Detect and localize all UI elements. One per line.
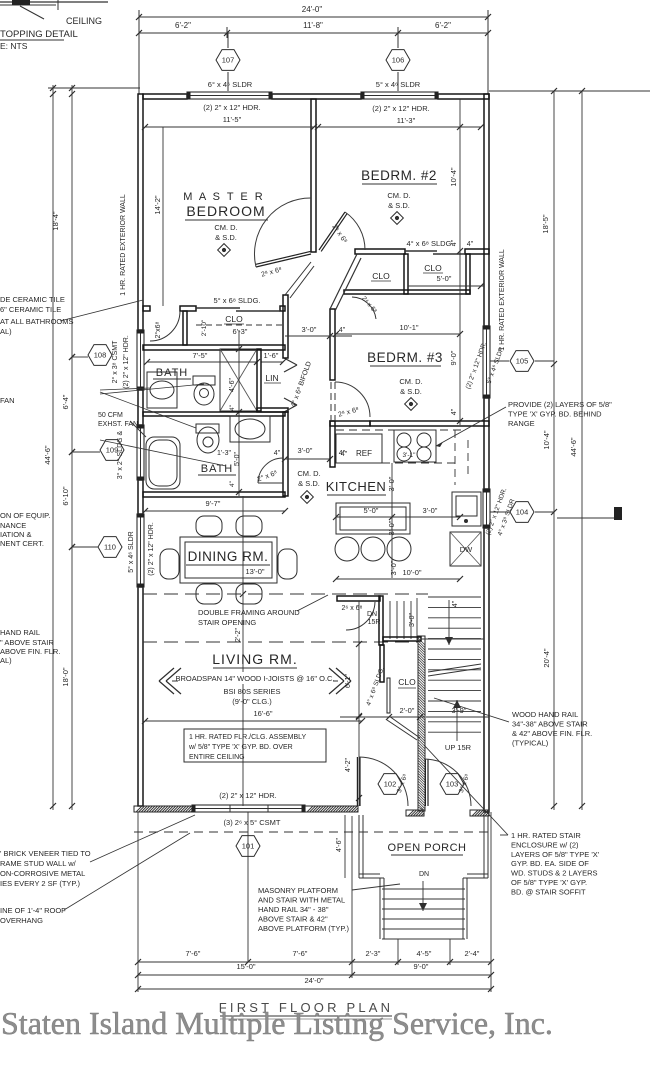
door 103 leaf bbox=[427, 759, 429, 806]
bath2 bottom wall / dining top bbox=[143, 492, 285, 497]
svg-text:6'-2": 6'-2" bbox=[175, 21, 191, 30]
bath1 toilet bbox=[193, 376, 215, 385]
svg-text:3'-1": 3'-1" bbox=[403, 452, 417, 459]
svg-text:& S.D.: & S.D. bbox=[215, 233, 237, 242]
vestibule east wall bbox=[379, 596, 383, 645]
range burners bbox=[397, 433, 411, 447]
svg-text:4'-5": 4'-5" bbox=[417, 949, 432, 958]
svg-text:AL): AL) bbox=[0, 327, 12, 336]
kitchen island bbox=[336, 503, 410, 534]
svg-text:6'-1": 6'-1" bbox=[345, 674, 352, 688]
svg-text:1'-6": 1'-6" bbox=[264, 351, 279, 360]
svg-text:BEDRM. #3: BEDRM. #3 bbox=[367, 350, 443, 365]
stair up arrow bbox=[456, 700, 458, 741]
svg-text:10'-1": 10'-1" bbox=[399, 323, 418, 332]
svg-text:CLO: CLO bbox=[424, 263, 442, 273]
hexagon 105 bedrm3 window bbox=[510, 351, 534, 372]
bottom exterior wall with hatch bbox=[134, 806, 192, 812]
svg-text:RAME STUD WALL w/: RAME STUD WALL w/ bbox=[0, 859, 77, 868]
svg-text:2° x 6⁸: 2° x 6⁸ bbox=[256, 469, 278, 484]
svg-text:2⁸ x 6⁸: 2⁸ x 6⁸ bbox=[261, 266, 283, 278]
stair treads bbox=[428, 596, 481, 598]
svg-text:103: 103 bbox=[446, 780, 459, 789]
bath2 tub bbox=[146, 437, 180, 489]
svg-text:20'-4": 20'-4" bbox=[542, 648, 551, 667]
svg-text:13'-0": 13'-0" bbox=[245, 567, 264, 576]
detail leader to CEILING bbox=[20, 6, 44, 19]
svg-text:" ABOVE STAIR: " ABOVE STAIR bbox=[0, 638, 54, 647]
stair rail double line bbox=[428, 664, 481, 672]
svg-text:10'-0": 10'-0" bbox=[402, 568, 421, 577]
svg-text:TOPPING DETAIL: TOPPING DETAIL bbox=[0, 29, 78, 40]
bath2 toilet bbox=[197, 427, 219, 453]
svg-text:9'-7": 9'-7" bbox=[206, 499, 221, 508]
window 6'0x4'6 SLDR master bbox=[187, 92, 272, 99]
svg-text:18'-5": 18'-5" bbox=[541, 214, 550, 233]
closet divider wall bbox=[404, 254, 408, 294]
left dim line inner segments bbox=[71, 85, 73, 810]
svg-text:6'-10": 6'-10" bbox=[61, 486, 70, 505]
walkin clo right wall bbox=[183, 311, 187, 345]
svg-text:44'-6": 44'-6" bbox=[569, 437, 578, 456]
svg-text:BATH: BATH bbox=[201, 463, 234, 475]
dining chairs bbox=[196, 516, 222, 536]
svg-text:GYP. BD. EA. SIDE OF: GYP. BD. EA. SIDE OF bbox=[511, 859, 589, 868]
svg-text:CM. D.: CM. D. bbox=[399, 377, 422, 386]
bath dim chain vertical bbox=[238, 330, 240, 496]
svg-text:109: 109 bbox=[106, 446, 119, 455]
svg-text:CM. D.: CM. D. bbox=[214, 223, 237, 232]
window left bath2 3'0x2'0 SLDG bbox=[137, 425, 144, 480]
counter dashed bbox=[336, 429, 462, 431]
svg-text:2° x 3⁸ CSMT: 2° x 3⁸ CSMT bbox=[111, 340, 119, 383]
svg-text:105: 105 bbox=[516, 357, 529, 366]
master door arc bbox=[254, 198, 311, 267]
left exterior wall bbox=[138, 94, 143, 330]
slider 5'0x6'8 SLDG master closet bbox=[196, 307, 240, 309]
stair down arrow bbox=[448, 600, 450, 645]
svg-text:MASONRY PLATFORM: MASONRY PLATFORM bbox=[258, 886, 338, 895]
svg-text:LIN: LIN bbox=[265, 373, 278, 383]
window right bedrm3 5'0x4'6 SLDR bbox=[483, 326, 490, 398]
svg-text:2'-3": 2'-3" bbox=[366, 949, 381, 958]
svg-text:15'-0": 15'-0" bbox=[236, 962, 255, 971]
svg-text:(2) 2" x 12" HDR.: (2) 2" x 12" HDR. bbox=[372, 104, 429, 113]
svg-text:(3) 2⁶ x 5° CSMT: (3) 2⁶ x 5° CSMT bbox=[224, 818, 281, 827]
svg-text:(2) 2" x 12" HDR.: (2) 2" x 12" HDR. bbox=[203, 103, 260, 112]
svg-text:& S.D.: & S.D. bbox=[388, 201, 410, 210]
porch left rail bbox=[358, 815, 360, 878]
svg-text:KITCHEN: KITCHEN bbox=[326, 479, 387, 494]
clo west wall upper bbox=[380, 645, 384, 682]
dn flight treads bbox=[389, 601, 391, 639]
broadspan arrow bbox=[172, 680, 338, 682]
svg-text:6'-4": 6'-4" bbox=[61, 394, 70, 409]
svg-text:107: 107 bbox=[222, 56, 235, 65]
svg-text:7'-5": 7'-5" bbox=[193, 351, 208, 360]
svg-text:WOOD HAND RAIL: WOOD HAND RAIL bbox=[512, 710, 578, 719]
bifold doors 4'0x6'8 bbox=[284, 358, 297, 365]
svg-text:ENCLOSURE w/ (2): ENCLOSURE w/ (2) bbox=[511, 840, 579, 849]
svg-text:' BRICK VENEER TIED TO: ' BRICK VENEER TIED TO bbox=[0, 849, 91, 858]
svg-text:EXHST. FAN: EXHST. FAN bbox=[98, 421, 138, 428]
hexagon 101 bbox=[247, 812, 249, 962]
svg-text:CLO: CLO bbox=[398, 677, 416, 687]
svg-text:OVERHANG: OVERHANG bbox=[0, 916, 43, 925]
svg-text:2'-10": 2'-10" bbox=[201, 319, 208, 336]
corridor east wall dashed lower bbox=[330, 382, 332, 420]
svg-text:PROVIDE (2) LAYERS OF 5/8": PROVIDE (2) LAYERS OF 5/8" bbox=[508, 400, 612, 409]
svg-text:101: 101 bbox=[242, 842, 255, 851]
svg-text:CEILING: CEILING bbox=[66, 16, 102, 26]
clo slider panel bbox=[387, 678, 390, 713]
vestibule top wall with door gap bbox=[337, 596, 380, 601]
svg-text:4": 4" bbox=[451, 239, 458, 246]
svg-text:& 42" ABOVE FIN. FLR.: & 42" ABOVE FIN. FLR. bbox=[512, 729, 592, 738]
svg-text:DINING RM.: DINING RM. bbox=[188, 549, 269, 564]
right dim line 44'-6 bbox=[581, 91, 583, 810]
hexagon 109 bbox=[100, 440, 124, 461]
svg-text:4": 4" bbox=[341, 451, 348, 458]
svg-text:IES EVERY 2 SF (TYP.): IES EVERY 2 SF (TYP.) bbox=[0, 879, 81, 888]
svg-text:CLO: CLO bbox=[372, 271, 390, 281]
svg-text:1 HR. RATED EXTERIOR WALL: 1 HR. RATED EXTERIOR WALL bbox=[120, 194, 127, 296]
center chain dining/living bbox=[242, 496, 244, 806]
porch depth dim 4'-6 bbox=[344, 815, 346, 878]
svg-text:CM. D.: CM. D. bbox=[387, 191, 410, 200]
svg-text:2'-0": 2'-0" bbox=[400, 706, 415, 715]
svg-text:1 HR. RATED FLR./CLG. ASSEMBLY: 1 HR. RATED FLR./CLG. ASSEMBLY bbox=[189, 734, 307, 741]
svg-text:AND STAIR WITH METAL: AND STAIR WITH METAL bbox=[258, 896, 345, 905]
svg-text:HAND RAIL: HAND RAIL bbox=[0, 628, 40, 637]
svg-text:5'-0": 5'-0" bbox=[437, 274, 452, 283]
leader lines sinks bbox=[100, 388, 150, 390]
svg-text:4": 4" bbox=[467, 241, 474, 248]
svg-text:3° x 2° SLDG &: 3° x 2° SLDG & bbox=[116, 430, 124, 479]
door 103 arc bbox=[424, 759, 471, 806]
svg-text:6'-3": 6'-3" bbox=[233, 327, 248, 336]
bottom windows (3) 2'6x5'0 CSMT bbox=[192, 805, 305, 812]
svg-text:(2) 2" x 12" HDR.: (2) 2" x 12" HDR. bbox=[219, 791, 276, 800]
dim line 2'-0 horizontal bbox=[340, 716, 424, 718]
svg-text:CM. D.: CM. D. bbox=[297, 469, 320, 478]
window left dining 5'0x4'6 SLDR bbox=[137, 514, 144, 587]
bottom wall seg door102 jamb bbox=[406, 810, 424, 816]
svg-text:3'-0": 3'-0" bbox=[389, 560, 398, 575]
svg-text:7'-6": 7'-6" bbox=[186, 949, 201, 958]
svg-text:ABOVE STAIR & 42": ABOVE STAIR & 42" bbox=[258, 915, 328, 924]
dim 3'-0 corridor lower bbox=[285, 458, 330, 460]
porch bottom rails bbox=[359, 873, 380, 875]
clo top wall bbox=[383, 637, 421, 641]
svg-text:106: 106 bbox=[392, 56, 405, 65]
vestibule door arc 2'6x6'8 bbox=[346, 602, 375, 630]
svg-text:5° x 6⁸ SLDG.: 5° x 6⁸ SLDG. bbox=[213, 296, 260, 305]
svg-text:34"-38" ABOVE STAIR: 34"-38" ABOVE STAIR bbox=[512, 720, 588, 729]
svg-text:11'-8": 11'-8" bbox=[303, 21, 323, 30]
svg-text:w/ 5/8" TYPE 'X' GYP. BD. OVER: w/ 5/8" TYPE 'X' GYP. BD. OVER bbox=[188, 744, 293, 751]
svg-text:2⁸ x 6⁸: 2⁸ x 6⁸ bbox=[338, 406, 360, 418]
svg-text:4'-6": 4'-6" bbox=[229, 378, 236, 392]
svg-text:44'-6": 44'-6" bbox=[43, 445, 52, 464]
svg-text:DE CERAMIC TILE: DE CERAMIC TILE bbox=[0, 295, 65, 304]
svg-text:NANCE: NANCE bbox=[0, 521, 26, 530]
stair enclosure hatched wall bbox=[418, 636, 425, 811]
svg-text:4": 4" bbox=[229, 480, 236, 487]
svg-text:IATION &: IATION & bbox=[0, 530, 32, 539]
svg-text:BSI 80S SERIES: BSI 80S SERIES bbox=[223, 687, 280, 696]
bedrm3 door arc 2'8x6'8 bbox=[335, 382, 370, 417]
svg-text:9'-0": 9'-0" bbox=[449, 350, 458, 365]
closet right wall bbox=[466, 254, 470, 294]
svg-text:BD. @ STAIR SOFFIT: BD. @ STAIR SOFFIT bbox=[511, 887, 586, 896]
svg-text:2°x6⁸: 2°x6⁸ bbox=[154, 321, 162, 338]
svg-text:INE OF 1'-4" ROOF: INE OF 1'-4" ROOF bbox=[0, 906, 66, 915]
svg-text:18'-4": 18'-4" bbox=[51, 211, 60, 230]
svg-text:11'-5": 11'-5" bbox=[223, 115, 242, 124]
svg-text:24'-0": 24'-0" bbox=[304, 976, 323, 985]
svg-text:3'-0": 3'-0" bbox=[387, 476, 396, 491]
bottom wall hatch mid bbox=[305, 806, 358, 812]
svg-text:AT ALL BATHROOMS: AT ALL BATHROOMS bbox=[0, 317, 74, 326]
dining table bbox=[180, 537, 277, 583]
bath2 vanity sink bbox=[230, 416, 270, 442]
corridor east wall bbox=[330, 309, 335, 380]
svg-text:UP 15R: UP 15R bbox=[445, 743, 472, 752]
door 102 arc bbox=[359, 757, 408, 806]
svg-text:M A S T E R: M A S T E R bbox=[183, 191, 265, 203]
svg-text:1'-3": 1'-3" bbox=[217, 450, 231, 457]
svg-text:4'-2": 4'-2" bbox=[345, 758, 352, 772]
svg-text:104: 104 bbox=[516, 508, 529, 517]
porch right rail bbox=[483, 815, 485, 878]
svg-text:5° x 4⁶ SLDR: 5° x 4⁶ SLDR bbox=[376, 80, 421, 89]
porch steps bbox=[382, 888, 465, 890]
clo diagonal door arc 2'4x6'8 bbox=[352, 297, 376, 319]
svg-text:108: 108 bbox=[94, 351, 107, 360]
svg-text:ENTIRE CEILING: ENTIRE CEILING bbox=[189, 754, 245, 761]
bedrm2 door arc bbox=[345, 212, 365, 250]
slider 4'0x6'8 SLDG closet doors bbox=[405, 250, 437, 252]
svg-text:4° x 6⁸ SLDG.: 4° x 6⁸ SLDG. bbox=[406, 239, 453, 248]
svg-text:BEDRM. #2: BEDRM. #2 bbox=[361, 168, 437, 183]
svg-text:FAN: FAN bbox=[0, 396, 15, 405]
closet bottom wall bbox=[344, 290, 470, 294]
svg-text:6" CERAMIC TILE: 6" CERAMIC TILE bbox=[0, 305, 61, 314]
svg-text:ON-CORROSIVE METAL: ON-CORROSIVE METAL bbox=[0, 869, 85, 878]
svg-text:LIVING RM.: LIVING RM. bbox=[212, 651, 297, 667]
svg-text:3'-0": 3'-0" bbox=[423, 506, 438, 515]
right horiz extension top bbox=[489, 90, 650, 92]
svg-text:& S.D.: & S.D. bbox=[298, 479, 320, 488]
living east dim line 6'-1 4'-2 bbox=[358, 601, 360, 806]
svg-text:4'-6": 4'-6" bbox=[336, 838, 343, 852]
svg-text:BEDROOM: BEDROOM bbox=[186, 203, 265, 219]
svg-text:3'-0": 3'-0" bbox=[302, 325, 317, 334]
svg-text:NENT CERT.: NENT CERT. bbox=[0, 539, 44, 548]
window 5'0x4'6 SLDR bedrm2 bbox=[361, 92, 438, 99]
svg-text:CLO: CLO bbox=[225, 314, 243, 324]
svg-text:5° x 4⁶ SLDR: 5° x 4⁶ SLDR bbox=[127, 531, 135, 572]
walkin clo door arc 2'0x6'8 bbox=[150, 311, 180, 341]
svg-text:1 HR. RATED STAIR: 1 HR. RATED STAIR bbox=[511, 831, 581, 840]
svg-text:WD. STUDS & 2 LAYERS: WD. STUDS & 2 LAYERS bbox=[511, 869, 598, 878]
svg-text:E: NTS: E: NTS bbox=[0, 41, 28, 51]
svg-text:ABOVE FIN. FLR.: ABOVE FIN. FLR. bbox=[0, 647, 60, 656]
svg-text:AL): AL) bbox=[0, 656, 12, 665]
bedrm2 door leaf bbox=[319, 212, 345, 250]
shower stall bbox=[220, 349, 257, 411]
svg-text:6° x 4⁶ SLDR: 6° x 4⁶ SLDR bbox=[208, 80, 253, 89]
bath2 door arc 2'0x6'8 bbox=[258, 458, 283, 483]
svg-text:4": 4" bbox=[274, 450, 281, 457]
svg-text:LAYERS OF 5/8" TYPE 'X': LAYERS OF 5/8" TYPE 'X' bbox=[511, 850, 600, 859]
svg-text:10'-4": 10'-4" bbox=[542, 430, 551, 449]
top exterior wall bbox=[143, 94, 187, 99]
svg-text:OPEN PORCH: OPEN PORCH bbox=[388, 842, 467, 854]
svg-text:HAND RAIL 34" - 38": HAND RAIL 34" - 38" bbox=[258, 905, 329, 914]
svg-text:DN: DN bbox=[419, 871, 429, 878]
chain 10'-4 bedrm2 bbox=[459, 99, 461, 425]
stair opening dashed top bbox=[143, 593, 428, 595]
svg-text:4": 4" bbox=[452, 600, 459, 607]
svg-text:2'-4": 2'-4" bbox=[465, 949, 480, 958]
svg-text:OF 5/8" TYPE 'X' GYP.: OF 5/8" TYPE 'X' GYP. bbox=[511, 878, 587, 887]
svg-text:(TYPICAL): (TYPICAL) bbox=[512, 739, 549, 748]
svg-text:5'-0": 5'-0" bbox=[234, 452, 241, 466]
1hr rated box bbox=[184, 729, 326, 762]
bath1 sink bbox=[147, 372, 177, 408]
svg-text:ON OF EQUIP.: ON OF EQUIP. bbox=[0, 511, 50, 520]
window left bath 2'0x3'8 CSMT bbox=[137, 330, 144, 390]
svg-text:9'-0": 9'-0" bbox=[414, 962, 429, 971]
window right kitchen 4'0x3'8 SLDR bbox=[483, 489, 490, 528]
left top extension bbox=[48, 87, 140, 89]
porch dashed overhang line bbox=[134, 831, 490, 833]
window marker hexagon 106 bbox=[397, 33, 399, 48]
svg-text:10'-4": 10'-4" bbox=[449, 167, 458, 186]
svg-text:18'-0": 18'-0" bbox=[61, 667, 70, 686]
svg-text:110: 110 bbox=[104, 543, 116, 552]
svg-text:TYPE 'X' GYP. BD. BEHIND: TYPE 'X' GYP. BD. BEHIND bbox=[508, 410, 602, 419]
bottom extension verticals bbox=[137, 812, 139, 992]
svg-text:BATH: BATH bbox=[156, 367, 189, 379]
bedrm2 bottom wall bbox=[355, 249, 405, 254]
svg-text:Staten Island Multiple Listing: Staten Island Multiple Listing Service, … bbox=[1, 1005, 553, 1041]
svg-text:11'-3": 11'-3" bbox=[397, 116, 416, 125]
svg-text:(2) 2" x 12" HDR.: (2) 2" x 12" HDR. bbox=[148, 522, 155, 576]
door 102 leaf bbox=[359, 757, 361, 806]
svg-text:DW: DW bbox=[460, 545, 473, 554]
svg-text:50 CFM: 50 CFM bbox=[98, 412, 123, 419]
hexagon 108 bbox=[88, 345, 112, 366]
svg-text:24'-0": 24'-0" bbox=[302, 5, 323, 14]
right dim line 18'-5 10'-4 20'-4 bbox=[553, 91, 555, 810]
porch step rails bbox=[379, 878, 381, 939]
right exterior wall bbox=[484, 94, 489, 326]
master door hinge leaf bbox=[256, 254, 311, 267]
stair opening dashed bottom bbox=[143, 641, 418, 643]
svg-text:4° x 6⁸ SLDG.: 4° x 6⁸ SLDG. bbox=[364, 666, 386, 707]
svg-text:4": 4" bbox=[339, 327, 346, 334]
bedrm3/kitchen wall bbox=[330, 421, 370, 426]
svg-text:BROADSPAN 14" WOOD I-JOISTS @: BROADSPAN 14" WOOD I-JOISTS @ 16" O.C. bbox=[175, 674, 334, 683]
svg-text:1 HR. RATED EXTERIOR WALL: 1 HR. RATED EXTERIOR WALL bbox=[499, 249, 506, 351]
bath1 top wall bbox=[143, 345, 285, 350]
dim extension verticals top bbox=[138, 10, 140, 94]
master bottom wall bbox=[143, 306, 150, 311]
kitchen west wall bbox=[330, 421, 335, 467]
fridge REF bbox=[336, 434, 382, 463]
svg-text:2'-2": 2'-2" bbox=[235, 628, 242, 642]
svg-text:3'-0": 3'-0" bbox=[409, 613, 416, 627]
svg-text:REF: REF bbox=[356, 449, 372, 458]
svg-text:7'-6": 7'-6" bbox=[293, 949, 308, 958]
svg-text:3'-0": 3'-0" bbox=[387, 520, 396, 535]
left dim line outer 44'-6 bbox=[52, 85, 54, 810]
dishwasher DW bbox=[450, 532, 481, 566]
neighbor detail mark right bbox=[557, 517, 616, 519]
island stools bbox=[335, 537, 359, 561]
clo diagonal wall bbox=[389, 716, 420, 738]
wall bath1/bath2 divider bbox=[143, 412, 285, 416]
svg-text:3'-0": 3'-0" bbox=[298, 446, 313, 455]
bottom wall right seg bbox=[470, 810, 489, 816]
CLO dashed interior bbox=[196, 324, 282, 326]
corridor west wall diag bbox=[285, 262, 311, 295]
wall bath east side bbox=[283, 295, 288, 358]
svg-text:102: 102 bbox=[384, 780, 397, 789]
window marker hexagon 107 bbox=[227, 33, 229, 48]
svg-text:(2) 2" x 12" HDR.: (2) 2" x 12" HDR. bbox=[123, 335, 130, 389]
svg-text:(9'-0" CLG.): (9'-0" CLG.) bbox=[232, 697, 272, 706]
hexagon 104 kitchen window bbox=[510, 502, 534, 523]
svg-text:& S.D.: & S.D. bbox=[400, 387, 422, 396]
svg-text:14'-2": 14'-2" bbox=[153, 195, 162, 214]
firestopping detail ceiling line bbox=[0, 1, 108, 3]
LIN closet bbox=[257, 349, 261, 411]
svg-text:STAIR OPENING: STAIR OPENING bbox=[198, 618, 256, 627]
wall master/bedrm2 divider bbox=[311, 99, 316, 252]
svg-text:4": 4" bbox=[451, 408, 458, 415]
hexagon 110 bbox=[98, 537, 122, 558]
kitchen sink bbox=[452, 492, 481, 526]
svg-text:DOUBLE FRAMING AROUND: DOUBLE FRAMING AROUND bbox=[198, 608, 300, 617]
svg-text:6'-2": 6'-2" bbox=[435, 21, 451, 30]
svg-text:RANGE: RANGE bbox=[508, 419, 535, 428]
svg-text:16'-6": 16'-6" bbox=[253, 709, 272, 718]
svg-text:2⁴ x 6⁸: 2⁴ x 6⁸ bbox=[360, 295, 378, 315]
svg-text:ABOVE PLATFORM (TYP.): ABOVE PLATFORM (TYP.) bbox=[258, 924, 349, 933]
svg-text:4": 4" bbox=[229, 404, 236, 411]
